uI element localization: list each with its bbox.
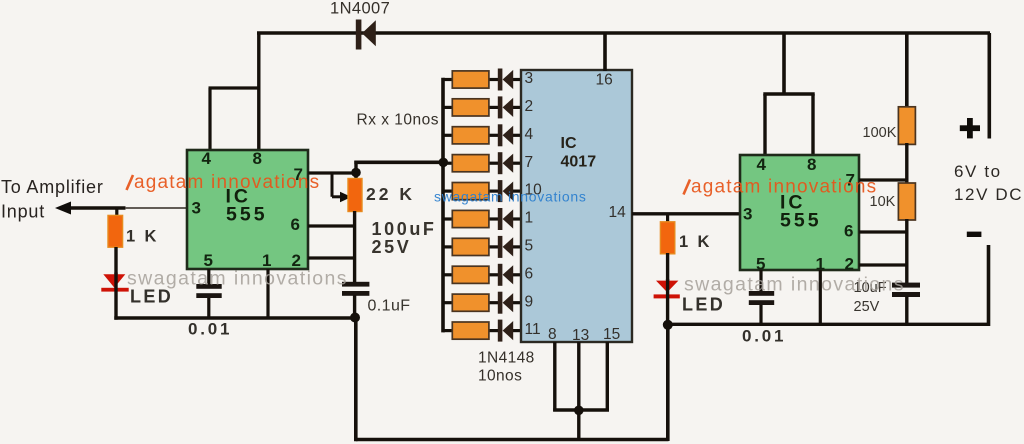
wire: left circuit bottom rail (114, 316, 356, 319)
svg-text:1 K: 1 K (679, 233, 712, 251)
wire: LED2 to right ground rail (666, 279, 669, 326)
node: right ground junction (663, 320, 673, 330)
diode 1N4148 row 10 (498, 320, 513, 342)
wire: pin 16 drop from rail (603, 33, 607, 71)
wire: pin4-pin8 link (209, 86, 261, 89)
timer U3 IC 555 (right) body (740, 155, 859, 270)
svg-text:16: 16 (596, 72, 613, 89)
svg-text:Input: Input (1, 202, 45, 222)
wire: long bottom ground rail (356, 438, 669, 442)
wire: pot top elbow to resistor bus (354, 161, 444, 179)
diode 1N4148 row 9 (498, 292, 513, 314)
svg-text:swagatam innovations: swagatam innovations (434, 189, 587, 205)
LED D3 (right, red) (654, 281, 680, 299)
wire: wiper branch with arrow into pot (332, 173, 352, 202)
svg-text:LED: LED (130, 287, 173, 307)
resistor Rx row 1 (452, 71, 489, 88)
wire: pin 13 drop to bottom rail (577, 342, 580, 440)
svg-text:8: 8 (807, 155, 816, 174)
svg-text:2: 2 (845, 255, 854, 274)
terminal - symbol (967, 232, 982, 237)
svg-text:LED: LED (682, 295, 725, 315)
capacitor C1 0.01 plates (196, 284, 221, 298)
wire: row 2 stubs (pin 2) (443, 106, 521, 109)
svg-text:25V: 25V (854, 299, 880, 315)
svg-text:1N4007: 1N4007 (330, 0, 390, 18)
op-amp U1 IC 555 (left) body (187, 150, 308, 269)
wire: row 4 stubs (pin 7) (443, 162, 521, 165)
svg-text:2: 2 (525, 98, 534, 115)
resistor Rx row 4 (452, 155, 489, 172)
svg-text:3: 3 (743, 205, 752, 224)
terminal + symbol (960, 118, 980, 138)
diode 1N4148 row 8 (498, 264, 513, 286)
wire: negative terminal riser (987, 245, 991, 326)
svg-text:1 K: 1 K (126, 228, 159, 246)
resistor Rx row 2 (452, 99, 489, 116)
svg-text:4017: 4017 (561, 154, 597, 171)
diode 1N4148 row 3 (498, 124, 513, 146)
LED D2 (left, red) (101, 274, 128, 291)
wire: pin 8 drop from rail to IC1 (257, 33, 260, 151)
svg-text:0.01: 0.01 (742, 327, 786, 346)
node: junction pins 8-13-15 (574, 406, 584, 416)
capacitor C2 0.1uF plates (342, 282, 369, 296)
svg-text:22 K: 22 K (366, 184, 415, 204)
resistor R4 10K (898, 183, 915, 220)
svg-text:12V DC: 12V DC (954, 185, 1023, 204)
diode 1N4148 row 7 (498, 236, 513, 258)
svg-text:11: 11 (525, 321, 541, 338)
wire: row 6 stubs (pin 1) (443, 217, 521, 220)
svg-text:8: 8 (548, 326, 557, 343)
wire: pin 4 drop to IC1 (208, 88, 211, 151)
wire: row 10 stubs (pin 11) (443, 329, 521, 332)
svg-text:5: 5 (525, 238, 534, 255)
wire: pin 4 drop (IC3) (763, 94, 766, 156)
resistor R3 100K (898, 107, 915, 145)
svg-text:4: 4 (757, 155, 767, 174)
svg-text:Rx x 10nos: Rx x 10nos (357, 112, 440, 129)
svg-text:3: 3 (192, 199, 201, 218)
resistor Rx row 5 (452, 183, 489, 200)
resistor Rx row 8 (452, 266, 489, 283)
node: left ground junction (350, 313, 360, 323)
wire: riser from bottom rail to right ground (666, 326, 670, 441)
svg-text:7: 7 (525, 154, 534, 171)
wire: C4 to ground rail (905, 296, 908, 324)
svg-text:25V: 25V (372, 237, 412, 257)
wire: pin 15 drop (606, 342, 609, 412)
wire: input line with arrow to amplifier (55, 202, 188, 215)
node: junction bus / pot wire (439, 158, 449, 168)
potentiometer 22K body (348, 179, 362, 212)
watermark orange left (127, 172, 321, 193)
svg-text:6: 6 (291, 215, 300, 234)
wire: R1 to LED1 (114, 247, 117, 276)
wire: C2 to ground junction (353, 295, 356, 319)
svg-text:3: 3 (525, 70, 534, 87)
svg-text:15: 15 (603, 326, 620, 343)
wire: row 5 stubs (pin 10) (443, 190, 521, 193)
watermark orange right (684, 177, 878, 198)
svg-text:swagatam innovations: swagatam innovations (127, 268, 348, 290)
capacitor C1 0.01 (left) stub (207, 269, 210, 285)
diode 1N4148 row 2 (498, 96, 513, 118)
resistor R1 1K (left) (108, 215, 123, 247)
svg-text:13: 13 (572, 327, 589, 344)
svg-text:IC: IC (561, 135, 577, 152)
wire: drop to long bottom rail (354, 318, 358, 441)
IC U2 4017 body (521, 70, 632, 342)
wire: supply T-drop to IC3 (782, 33, 786, 96)
svg-text:10nos: 10nos (478, 368, 522, 385)
wire: IC1 pin 2 link (308, 256, 355, 259)
wire: row 9 stubs (pin 9) (443, 301, 521, 304)
wire: pin 8 drop (IC3) (811, 94, 814, 156)
svg-text:To Amplifier: To Amplifier (1, 177, 104, 197)
resistor R2 1K (right) (660, 222, 674, 254)
resistor Rx row 6 (452, 210, 489, 227)
wire: 10K to C4 (905, 219, 908, 284)
wire: row 8 stubs (pin 6) (443, 273, 521, 276)
wire: row 7 stubs (pin 5) (443, 245, 521, 248)
diode 1N4148 row 4 (498, 152, 513, 174)
svg-text:swagatam innovations: swagatam innovations (684, 274, 905, 296)
wire: IC3 pin 7 link (859, 178, 908, 181)
wire: IC1 pin 6 link (308, 224, 355, 227)
wire: pot bottom vertical (353, 211, 356, 283)
svg-text:4: 4 (202, 149, 212, 168)
svg-text:100uF: 100uF (372, 219, 437, 239)
svg-text:agatam innovations: agatam innovations (134, 172, 320, 193)
svg-text:6: 6 (525, 265, 534, 282)
diode 1N4148 row 1 (498, 69, 513, 91)
svg-text:100K: 100K (863, 125, 897, 141)
diode D1 1N4007 on supply rail (356, 20, 376, 50)
capacitor C3 0.01 plates (749, 291, 774, 305)
wire: R2 to LED2 (666, 253, 669, 282)
wire: Rx bus vertical (441, 78, 445, 333)
svg-text:9: 9 (525, 293, 534, 310)
wire: IC3 pin 1 to ground (819, 270, 822, 324)
wire: pin 14 to IC3 pin 3 (632, 212, 741, 215)
svg-text:14: 14 (609, 204, 627, 221)
wire: pins 8-13-15 link (553, 408, 609, 411)
svg-text:8: 8 (253, 149, 262, 168)
node: junction at pot top (351, 168, 361, 178)
wire: IC3 pin 6 link (859, 230, 908, 233)
svg-text:1: 1 (525, 210, 534, 227)
wire: 100K to 10K (905, 143, 908, 184)
capacitor C4 10uF plates (892, 283, 920, 297)
resistor Rx row 7 (452, 238, 489, 255)
svg-text:6: 6 (844, 222, 853, 241)
svg-text:6V to: 6V to (954, 162, 1002, 181)
svg-text:555: 555 (226, 204, 268, 226)
svg-text:0.1uF: 0.1uF (368, 298, 411, 315)
wire: LED1 to ground rail (114, 273, 117, 320)
diode 1N4148 row 6 (498, 208, 513, 230)
wire: stub to R2 top (666, 213, 669, 223)
svg-text:1N4148: 1N4148 (478, 350, 535, 367)
wire: positive terminal drop (987, 33, 991, 139)
wire: stub to R1 top (115, 207, 118, 217)
resistor Rx row 10 (452, 322, 489, 339)
wire: pin 8 drop (553, 342, 556, 412)
capacitor C3 0.01 (right) stub (759, 270, 762, 292)
wire: 100K drop from rail (905, 33, 909, 108)
wire: IC1 pin 1 to ground (266, 269, 269, 318)
wire: right circuit ground rail (666, 323, 989, 326)
wire: row 1 stubs (pin 3) (443, 78, 521, 81)
resistor Rx row 9 (452, 294, 489, 311)
svg-text:0.01: 0.01 (188, 320, 232, 339)
svg-text:555: 555 (780, 210, 822, 232)
resistor Rx row 3 (452, 127, 489, 144)
wire: IC3 pin 2 link (859, 263, 908, 266)
svg-text:4: 4 (525, 126, 534, 143)
wire: pin4-pin8 link (IC3) (763, 92, 814, 95)
wire: IC1 pin 7 out (308, 171, 356, 174)
wire: top supply rail (257, 31, 990, 35)
svg-text:agatam innovations: agatam innovations (691, 177, 877, 198)
diode 1N4148 row 5 (498, 180, 513, 202)
wire: row 3 stubs (pin 4) (443, 134, 521, 137)
